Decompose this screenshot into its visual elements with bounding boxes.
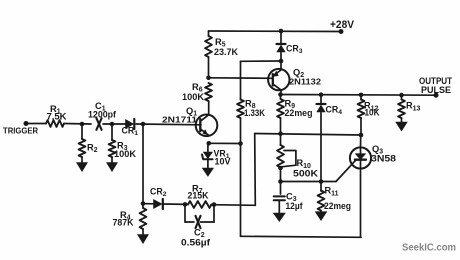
svg-text:TRIGGER: TRIGGER xyxy=(3,126,38,136)
svg-text:10V: 10V xyxy=(215,156,231,166)
svg-text:23.7K: 23.7K xyxy=(214,47,239,57)
svg-text:2N1132: 2N1132 xyxy=(289,77,321,87)
svg-text:12µf: 12µf xyxy=(286,201,303,211)
svg-text:10K: 10K xyxy=(365,107,381,117)
svg-text:1200pf: 1200pf xyxy=(88,110,116,120)
svg-text:+28V: +28V xyxy=(330,19,354,31)
svg-text:215K: 215K xyxy=(188,191,210,201)
svg-text:1.33K: 1.33K xyxy=(244,108,266,118)
svg-text:787K: 787K xyxy=(113,218,135,228)
svg-text:0.56µf: 0.56µf xyxy=(181,238,210,248)
svg-text:SeekIC.com: SeekIC.com xyxy=(402,243,456,254)
svg-text:100K: 100K xyxy=(182,92,205,102)
svg-text:100K: 100K xyxy=(114,149,137,159)
svg-text:22meg: 22meg xyxy=(285,108,313,118)
svg-text:3N58: 3N58 xyxy=(371,154,396,164)
svg-text:500K: 500K xyxy=(293,168,319,178)
svg-text:7.5K: 7.5K xyxy=(47,112,68,122)
svg-text:2N1711: 2N1711 xyxy=(162,115,197,125)
svg-text:PULSE: PULSE xyxy=(421,84,451,95)
svg-text:22meg: 22meg xyxy=(324,201,351,211)
